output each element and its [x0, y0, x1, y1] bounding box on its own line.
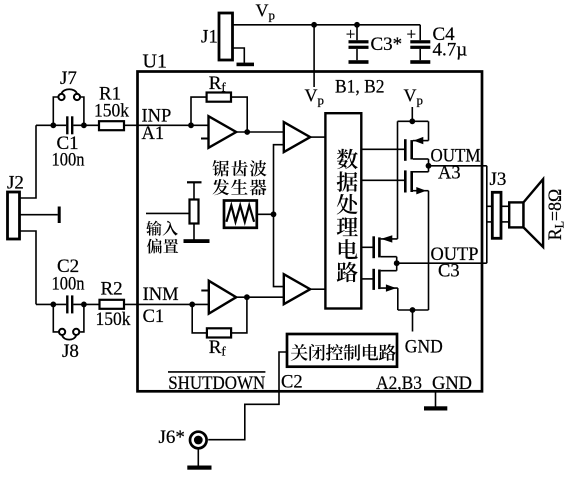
wire comparator bottom output	[310, 288, 325, 290]
comparator bottom	[284, 274, 310, 304]
feedback wire Rf2 right	[231, 297, 247, 333]
wire INM (left of C2)	[36, 303, 66, 305]
transistor Q2 gate lead	[361, 179, 404, 181]
wire op-amp2 output	[236, 296, 284, 298]
wire OUTM	[429, 165, 487, 167]
label fa-sheng-qi (generator)	[213, 179, 267, 195]
svg-text:SHUTDOWN: SHUTDOWN	[168, 373, 265, 394]
svg-text:100n: 100n	[52, 273, 85, 294]
svg-text:A2,B3: A2,B3	[376, 373, 422, 394]
junction node C2 right	[81, 302, 87, 308]
junction node op-amp2 output	[244, 294, 250, 300]
label shu-ju-chu-li-dian-lu (data processing circuit)	[337, 149, 358, 282]
svg-text:4.7µ: 4.7µ	[433, 40, 468, 61]
minus stub op-amp1	[201, 138, 208, 140]
svg-text:100n: 100n	[52, 149, 85, 170]
transistor Q4	[372, 269, 375, 290]
svg-text:J6*: J6*	[159, 427, 185, 448]
label guan-bi-kong-zhi-dian-lu (shutdown control circuit)	[291, 344, 396, 361]
capacitor C1	[66, 116, 68, 134]
ground (A2,B3)	[435, 392, 437, 407]
op-amp U1b	[209, 281, 236, 314]
svg-text:C1: C1	[143, 307, 165, 327]
IC U1 box	[138, 72, 483, 392]
wire shutdown to J6	[208, 352, 287, 440]
resistor R1	[99, 121, 124, 130]
wire J2 bottom lead	[20, 231, 37, 304]
J2 tip bar	[58, 207, 61, 224]
ground (J6)	[187, 466, 211, 470]
wire J6 ground	[197, 448, 199, 465]
transistor Q3	[372, 236, 375, 258]
svg-text:C3*: C3*	[371, 34, 403, 55]
wire Vp drop to pin B1,B2	[313, 25, 315, 87]
OUTM node	[426, 163, 432, 169]
junction node op-amp1 input	[188, 122, 194, 128]
jumper J8	[53, 304, 58, 332]
wire INP (left of C1)	[36, 124, 66, 126]
junction node C2 left	[50, 302, 56, 308]
connector J3	[492, 192, 501, 238]
ground (C4)	[410, 60, 430, 64]
wire OUTP	[397, 262, 487, 264]
ground (C3)	[349, 60, 369, 64]
svg-text:B1, B2: B1, B2	[335, 77, 385, 98]
capacitor C4	[419, 25, 421, 40]
feedback wire Rf1 right	[231, 97, 247, 132]
feedback wire Rf2 left	[192, 304, 207, 333]
wire rail left vertical to Q3	[397, 121, 399, 239]
wire Vp rail	[398, 120, 429, 122]
label shu-ru (input)	[146, 221, 178, 236]
wire GND rail	[398, 309, 429, 311]
minus stub op-amp2	[201, 290, 208, 292]
junction node Vp/B1B2	[311, 22, 317, 28]
resistor R2	[100, 300, 125, 309]
svg-text:GND: GND	[432, 373, 472, 394]
svg-text:+: +	[346, 25, 356, 44]
svg-text:INM: INM	[143, 285, 179, 305]
svg-text:J1: J1	[201, 27, 218, 48]
svg-text:U1: U1	[143, 50, 167, 72]
data processing circuit box	[325, 113, 361, 308]
junction node GND rail	[410, 307, 416, 313]
junction node C1 left	[50, 122, 56, 128]
svg-text:RL=8Ω: RL=8Ω	[545, 189, 567, 241]
input bias top rail	[193, 182, 195, 199]
junction node op-amp1 output	[244, 129, 250, 135]
input bias bottom ground	[193, 224, 195, 241]
input bias resistor	[190, 200, 199, 224]
wire op-amp1 output	[236, 131, 284, 133]
svg-text:J7: J7	[60, 68, 77, 89]
shutdown control box	[287, 334, 397, 367]
wire comparator top output	[310, 136, 325, 138]
svg-text:150k: 150k	[94, 101, 129, 122]
label pian-zhi (bias)	[147, 239, 178, 254]
junction node op-amp2 input	[189, 302, 195, 308]
speaker leads	[501, 205, 509, 207]
svg-text:J2: J2	[7, 173, 24, 194]
svg-text:C3: C3	[438, 261, 460, 281]
transistor Q1 gate lead	[361, 148, 404, 150]
connector J6	[190, 432, 207, 449]
junction node sawtooth	[271, 211, 277, 217]
connector J2	[8, 192, 20, 239]
wire sawtooth to comparators	[274, 145, 284, 287]
transistor Q4 gate lead	[361, 278, 372, 280]
svg-text:C2: C2	[281, 373, 303, 393]
svg-text:J3: J3	[490, 169, 507, 190]
junction node C3	[354, 22, 360, 28]
wire sawtooth output	[257, 213, 274, 215]
svg-text:A1: A1	[142, 124, 165, 144]
sawtooth wave symbol	[226, 205, 254, 221]
svg-text:+: +	[407, 25, 417, 44]
op-amp U1a	[209, 116, 237, 148]
svg-text:150k: 150k	[96, 309, 131, 330]
transistor Q1	[404, 139, 407, 161]
connector J1	[219, 13, 233, 60]
ground (J1)	[237, 63, 255, 67]
transistor Q3 gate lead	[361, 246, 372, 248]
wire J2 top lead	[20, 125, 37, 198]
wire J2 tip contact	[20, 214, 58, 216]
wire INM (C2 to op-amp)	[73, 303, 209, 305]
resistor Rf (bottom)	[207, 328, 231, 337]
junction node C1 right	[81, 122, 87, 128]
svg-text:A3: A3	[438, 163, 461, 183]
wire Vp top rail	[233, 24, 421, 26]
speaker	[509, 202, 523, 227]
jumper J7	[53, 97, 58, 125]
wire J3 riser	[486, 166, 488, 263]
OUTP node	[394, 260, 400, 266]
svg-text:GND: GND	[405, 336, 443, 357]
comparator top	[284, 122, 310, 152]
transistor Q2	[404, 170, 407, 192]
wire Vp stub	[411, 107, 413, 121]
input bias stub wire	[146, 212, 190, 214]
label ju-chi-bo (sawtooth)	[212, 160, 266, 176]
capacitor C3*	[356, 25, 358, 40]
feedback wire Rf1 left	[191, 97, 207, 125]
capacitor C2	[66, 295, 68, 313]
wire J1 ground stub	[233, 48, 245, 63]
junction node rail	[409, 118, 415, 124]
resistor Rf (top)	[207, 93, 231, 102]
svg-text:R2: R2	[101, 279, 123, 300]
label SHUTDOWN with overline	[168, 371, 265, 373]
wire GND stub	[412, 310, 414, 332]
svg-text:J8: J8	[62, 341, 79, 362]
sawtooth generator box	[224, 201, 257, 228]
wire INP (C1 to op-amp)	[73, 124, 208, 126]
